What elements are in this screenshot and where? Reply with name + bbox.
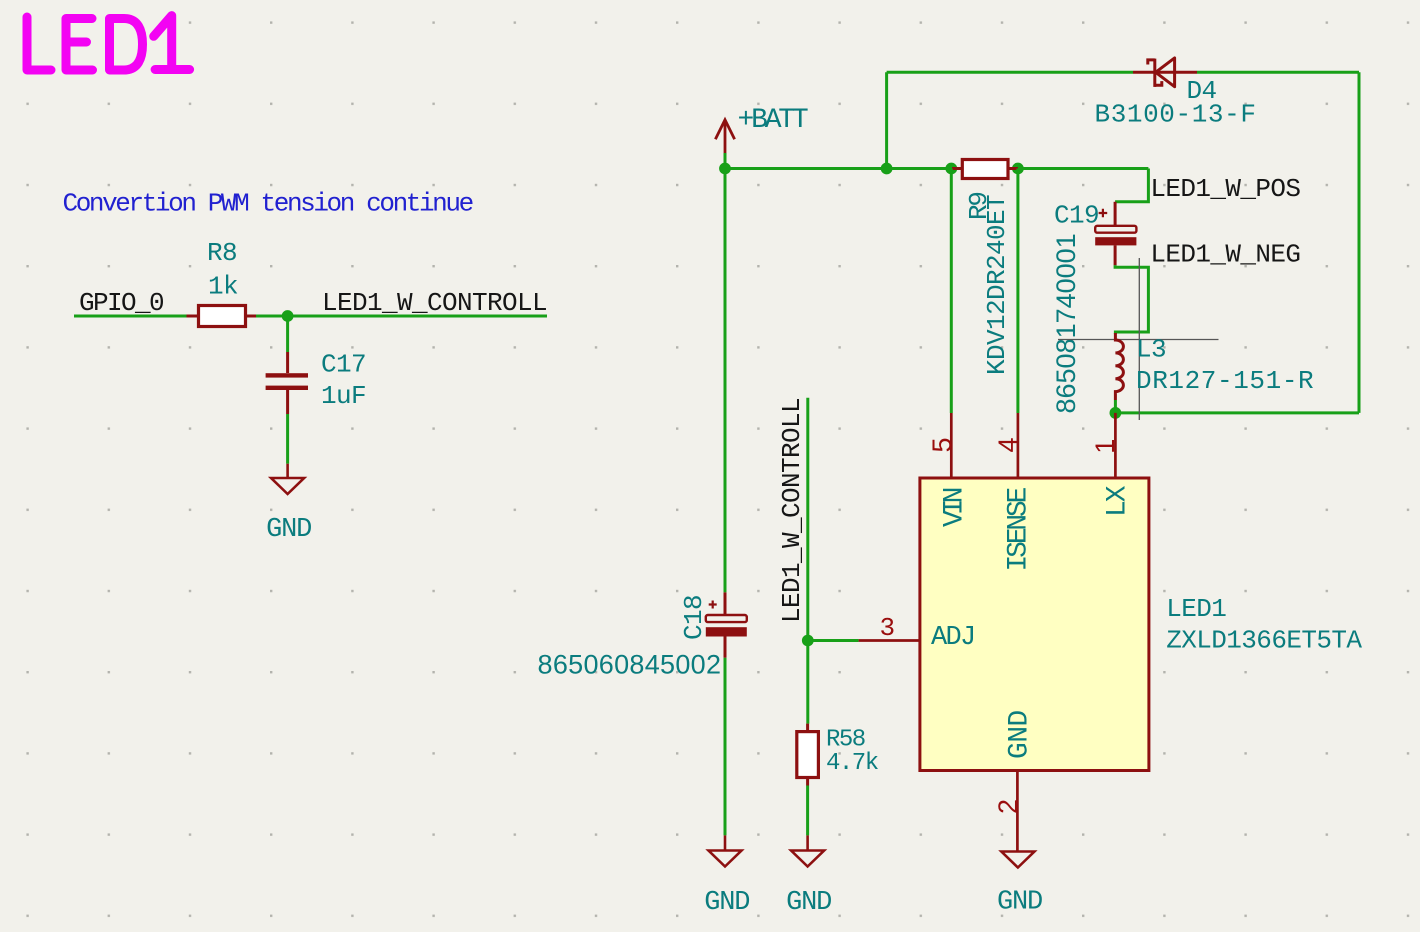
- junction: [1012, 163, 1024, 175]
- wire GPIO_0: [74, 315, 187, 318]
- svg-text:KDV12DR240ET: KDV12DR240ET: [982, 195, 1012, 375]
- junction: [719, 163, 731, 175]
- svg-text:R8: R8: [207, 238, 237, 268]
- svg-text:L3: L3: [1136, 335, 1166, 365]
- resistor R58: [797, 732, 819, 778]
- wire C19 to L3: [1115, 265, 1148, 334]
- junction: [881, 163, 893, 175]
- svg-text:5: 5: [927, 438, 957, 452]
- wire: [286, 414, 289, 464]
- wire: [1018, 167, 1149, 170]
- pin 5: [950, 413, 953, 478]
- wire main rail: [725, 167, 952, 170]
- wire: [887, 71, 1133, 74]
- wire pin5: [950, 169, 953, 414]
- svg-text:4.7k: 4.7k: [826, 750, 879, 777]
- svg-text:GND: GND: [266, 515, 311, 545]
- junction: [282, 310, 294, 322]
- svg-text:ADJ: ADJ: [931, 623, 975, 653]
- wire: [1197, 71, 1359, 74]
- svg-text:+BATT: +BATT: [738, 105, 808, 136]
- wire: [724, 153, 727, 169]
- svg-text:GND: GND: [786, 888, 831, 918]
- svg-text:LX: LX: [1103, 485, 1134, 517]
- wire pin4: [1016, 169, 1019, 414]
- resistor R8 pins: [187, 315, 257, 318]
- svg-text:ISENSE: ISENSE: [1004, 487, 1035, 571]
- power +BATT: [715, 120, 734, 153]
- junction: [802, 635, 814, 647]
- capacitor C17: [266, 350, 366, 415]
- IC LED1 ZXLD1366ET5TA body: [920, 478, 1149, 771]
- wire to C19: [1115, 169, 1148, 202]
- svg-text:B3100-13-F: B3100-13-F: [1095, 100, 1257, 130]
- svg-text:C17: C17: [321, 350, 366, 380]
- wire LED1_W_CONTROLL: [256, 315, 547, 318]
- resistor R58 pins: [806, 724, 809, 786]
- svg-text:DR127-151-R: DR127-151-R: [1136, 366, 1314, 396]
- svg-text:3: 3: [880, 613, 895, 643]
- resistor R8: [199, 306, 246, 327]
- svg-text:GND: GND: [997, 888, 1042, 918]
- wire: [1114, 400, 1117, 413]
- svg-text:VIN: VIN: [939, 488, 970, 527]
- ground: [791, 835, 824, 866]
- svg-text:GND: GND: [704, 888, 749, 918]
- wire ADJ: [808, 639, 859, 642]
- capacitor C18: [538, 592, 747, 679]
- anchor crosshair: [1058, 258, 1219, 420]
- svg-text:LED1_W_NEG: LED1_W_NEG: [1150, 239, 1300, 269]
- ground: [271, 464, 304, 494]
- svg-text:C18: C18: [679, 595, 709, 640]
- ground: [1001, 852, 1034, 868]
- svg-text:1: 1: [1090, 439, 1120, 453]
- resistor R9: [962, 160, 1008, 179]
- svg-text:LED1: LED1: [1166, 594, 1226, 624]
- resistor R9 pins: [952, 167, 1018, 170]
- svg-text:4: 4: [993, 438, 1023, 453]
- svg-text:865060845002: 865060845002: [538, 650, 722, 680]
- svg-text:LED1_W_POS: LED1_W_POS: [1150, 174, 1300, 204]
- wire: [286, 316, 289, 352]
- wire: [724, 658, 727, 836]
- pin 4: [1017, 413, 1020, 478]
- pin 2: [1016, 771, 1019, 852]
- wire: [1115, 411, 1359, 414]
- pin 1: [1114, 413, 1117, 478]
- wire LED1_W_CONTROLL vertical: [806, 398, 809, 724]
- svg-text:Convertion PWM tension continu: Convertion PWM tension continue: [63, 189, 473, 219]
- capacitor C19: [1051, 201, 1136, 414]
- svg-text:GPIO_0: GPIO_0: [79, 288, 163, 318]
- wire right side down: [1358, 72, 1361, 413]
- diode D4: [1133, 58, 1197, 87]
- pin 3: [859, 639, 920, 642]
- svg-text:ZXLD1366ET5TA: ZXLD1366ET5TA: [1166, 626, 1362, 656]
- svg-text:1uF: 1uF: [321, 381, 366, 411]
- svg-text:865081740001: 865081740001: [1051, 233, 1081, 413]
- wire rail1 down: [724, 169, 727, 593]
- svg-text:C19: C19: [1054, 201, 1099, 231]
- svg-text:LED1_W_CONTROLL: LED1_W_CONTROLL: [322, 288, 547, 318]
- svg-text:2: 2: [993, 800, 1023, 814]
- wire: [806, 786, 809, 836]
- junction: [945, 163, 957, 175]
- ground: [709, 835, 742, 866]
- sheet title LED1: [27, 16, 190, 70]
- svg-text:GND: GND: [1005, 710, 1036, 759]
- wire up to diode: [885, 72, 888, 168]
- inductor L3: [1115, 333, 1123, 400]
- svg-text:LED1_W_CONTROLL: LED1_W_CONTROLL: [777, 398, 807, 623]
- svg-text:1k: 1k: [208, 272, 238, 302]
- junction: [1110, 407, 1122, 419]
